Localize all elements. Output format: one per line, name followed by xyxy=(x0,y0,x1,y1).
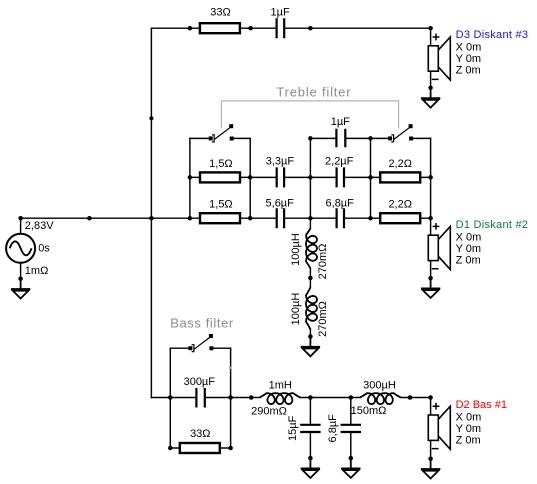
resistor 2,2ohm upper xyxy=(380,172,420,182)
svg-text:33Ω: 33Ω xyxy=(210,6,230,18)
ground source xyxy=(11,279,30,299)
inductor L3 100uH upper xyxy=(306,228,317,268)
callout mark Bass filter xyxy=(229,366,232,369)
wire vertical right block right down to D1 xyxy=(430,138,432,235)
wire upper rail segment A to 3,3uF xyxy=(190,176,276,178)
svg-text:Y 0m: Y 0m xyxy=(456,423,481,435)
svg-text:1,5Ω: 1,5Ω xyxy=(209,158,233,170)
wire switch row left of left treble switch xyxy=(190,137,209,139)
wire bass rail bus to 300uF xyxy=(151,397,195,399)
speaker D3 xyxy=(428,37,450,80)
wire top rail left of 1uF cap xyxy=(151,27,275,29)
svg-text:D2 Bas #1: D2 Bas #1 xyxy=(456,399,507,411)
capacitor 1uF top plates xyxy=(277,18,285,38)
wire lower rail segment 6,8uF to D1 xyxy=(345,217,431,219)
wire 6,8uF shunt top xyxy=(350,398,352,424)
capacitor 3,3uF plates xyxy=(277,167,284,187)
ground 6,8uF bass xyxy=(341,458,360,478)
wire bass 33ohm row right xyxy=(220,447,230,449)
wire D2 top stub xyxy=(430,398,432,416)
svg-text:D1 Diskant #2: D1 Diskant #2 xyxy=(456,219,529,231)
svg-text:3,3µF: 3,3µF xyxy=(266,156,295,168)
svg-text:X 0m: X 0m xyxy=(456,42,482,54)
resistor 33ohm top xyxy=(200,23,240,33)
svg-text:1,5Ω: 1,5Ω xyxy=(209,199,233,211)
switch treble left xyxy=(209,124,234,142)
capacitor 5,6uF plates xyxy=(277,208,284,228)
svg-text:290mΩ: 290mΩ xyxy=(251,405,287,417)
svg-text:6,8µF: 6,8µF xyxy=(327,414,339,443)
switch bass xyxy=(188,334,213,352)
wire switch row right of left treble switch xyxy=(234,137,251,139)
resistor 1,5ohm upper xyxy=(200,172,240,182)
svg-text:Bass filter: Bass filter xyxy=(170,316,234,331)
wire 15uF shunt top xyxy=(309,398,311,424)
svg-text:1mH: 1mH xyxy=(269,379,292,391)
callout lines Treble filter xyxy=(221,101,398,128)
capacitor 300uF plates xyxy=(196,388,204,408)
svg-text:Z 0m: Z 0m xyxy=(456,435,481,447)
wire source to bus xyxy=(21,217,152,219)
svg-text:Treble filter: Treble filter xyxy=(276,84,351,99)
wire main bus vertical xyxy=(150,28,152,397)
wire upper rail segment 3,3uF to 2,2uF xyxy=(285,176,336,178)
svg-text:33Ω: 33Ω xyxy=(190,428,210,440)
svg-text:X 0m: X 0m xyxy=(456,412,482,424)
svg-text:D3 Diskant #3: D3 Diskant #3 xyxy=(456,29,529,41)
speaker D2 xyxy=(428,406,450,449)
ground 15uF xyxy=(301,458,320,478)
inductor L2 300uH xyxy=(360,393,401,404)
capacitor 6,8uF bass plates xyxy=(341,425,361,432)
svg-text:2,2Ω: 2,2Ω xyxy=(388,199,412,211)
wire vertical left block left xyxy=(189,138,191,218)
svg-text:6,8µF: 6,8µF xyxy=(326,197,355,209)
wire D1 bottom stub xyxy=(430,261,432,278)
svg-text:5,6µF: 5,6µF xyxy=(266,197,295,209)
ground D1 xyxy=(421,278,440,298)
svg-text:1µF: 1µF xyxy=(331,116,350,128)
wire 1uF mid branch left xyxy=(310,137,335,139)
capacitor 6,8uF plates xyxy=(337,208,344,228)
ground treble coils xyxy=(301,337,320,357)
voltage source V1 xyxy=(6,234,35,263)
wire upper rail segment 2,2uF to right xyxy=(345,176,431,178)
wire bass switch row right xyxy=(214,347,231,349)
capacitor 1uF mid plates xyxy=(336,129,345,148)
svg-text:270mΩ: 270mΩ xyxy=(317,301,329,337)
svg-text:270mΩ: 270mΩ xyxy=(317,244,329,280)
svg-text:Z 0m: Z 0m xyxy=(456,65,481,77)
wire bass block right vertical xyxy=(230,348,232,448)
wire source top stub xyxy=(20,218,22,234)
svg-text:2,2µF: 2,2µF xyxy=(325,156,354,168)
resistor 1,5ohm lower xyxy=(200,213,240,223)
svg-text:Y 0m: Y 0m xyxy=(456,243,481,255)
wire D2 bottom stub xyxy=(430,440,432,458)
svg-text:1mΩ: 1mΩ xyxy=(25,265,49,277)
svg-text:1µF: 1µF xyxy=(271,6,290,18)
svg-text:0s: 0s xyxy=(38,242,50,254)
wire source bottom stub xyxy=(20,263,22,279)
svg-text:Y 0m: Y 0m xyxy=(456,53,481,65)
resistor 2,2ohm lower xyxy=(380,213,420,223)
wire between treble coils xyxy=(309,268,311,287)
ground D3 xyxy=(421,88,440,108)
wire vertical mid column 1uF branch down to coil xyxy=(309,138,311,228)
resistor 33ohm bass xyxy=(180,443,220,453)
capacitor 15uF plates xyxy=(300,425,320,432)
switch treble right xyxy=(388,124,413,142)
speaker D1 xyxy=(428,226,450,269)
wire 1uF mid branch right to right switch xyxy=(345,137,388,139)
wire 15uF shunt bottom xyxy=(309,433,311,458)
wire coil2 to ground xyxy=(309,329,311,336)
wire D3 top stub xyxy=(430,28,432,46)
wire bass rail 300uH to D2 xyxy=(401,397,431,399)
wire bass block left vertical xyxy=(169,348,171,448)
capacitor 2,2uF plates xyxy=(337,167,344,187)
inductor L4 100uH lower xyxy=(306,287,317,329)
svg-text:X 0m: X 0m xyxy=(456,232,482,244)
wire bass rail 300uF to 1mH xyxy=(206,397,260,399)
wire lower rail segment bus to 5,6uF xyxy=(151,217,275,219)
svg-text:2,83V: 2,83V xyxy=(25,220,54,232)
svg-text:100µH: 100µH xyxy=(290,233,302,266)
svg-text:2,2Ω: 2,2Ω xyxy=(388,158,412,170)
wire vertical right block left xyxy=(370,138,372,218)
svg-text:Z 0m: Z 0m xyxy=(456,255,481,267)
wire top rail right of 1uF cap xyxy=(285,27,430,29)
svg-text:150mΩ: 150mΩ xyxy=(351,405,387,417)
svg-text:300µF: 300µF xyxy=(184,376,216,388)
ground D2 xyxy=(421,459,440,479)
inductor L1 1mH xyxy=(260,393,301,404)
wire bass 33ohm row left xyxy=(170,447,179,449)
wire 6,8uF shunt bottom xyxy=(350,433,352,458)
svg-text:100µH: 100µH xyxy=(290,293,302,326)
wire lower rail segment 5,6uF to 6,8uF xyxy=(285,217,336,219)
wire vertical left block right xyxy=(249,138,251,218)
wire right treble switch to right vertical xyxy=(413,137,430,139)
wire bass rail 1mH to 300uH xyxy=(300,397,360,399)
wire D3 bottom stub xyxy=(430,71,432,88)
svg-text:300µH: 300µH xyxy=(363,379,396,391)
svg-text:15µF: 15µF xyxy=(287,415,299,441)
wire bass switch row left xyxy=(170,347,188,349)
